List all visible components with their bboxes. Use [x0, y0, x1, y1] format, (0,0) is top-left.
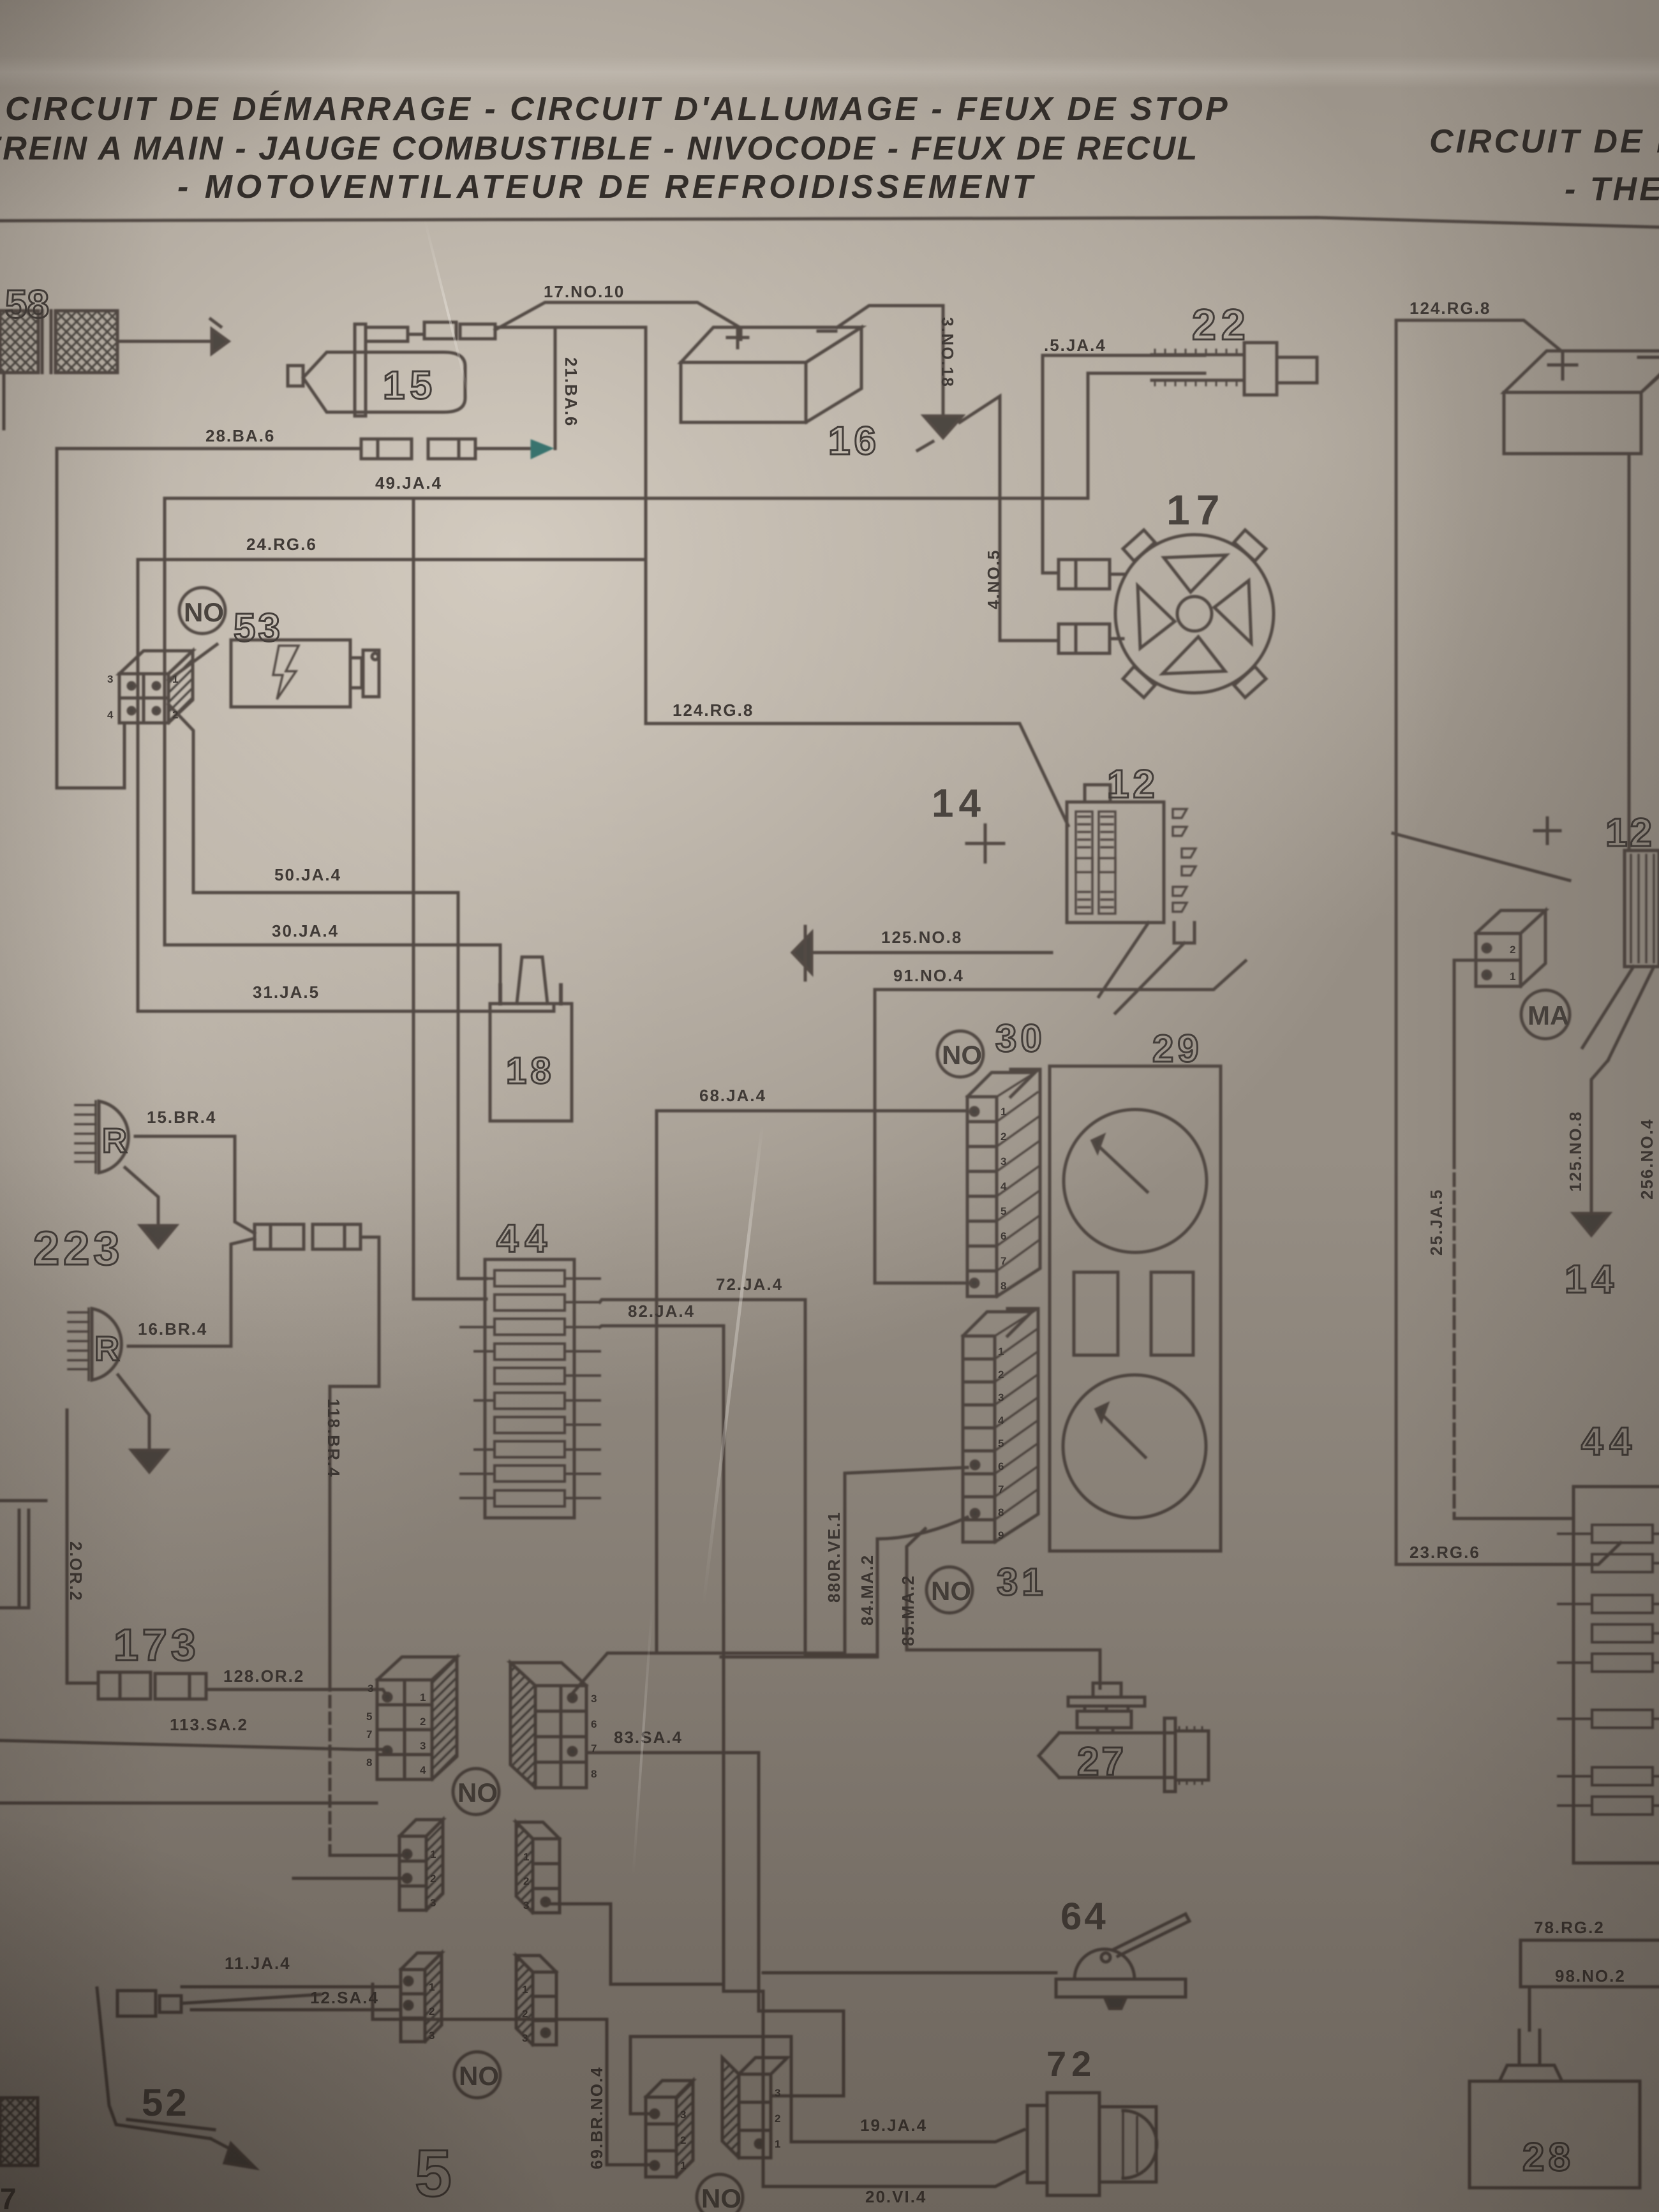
svg-text:FREIN A MAIN - JAUGE COMBUSTIB: FREIN A MAIN - JAUGE COMBUSTIBLE - NIVOC…	[0, 130, 1199, 167]
svg-text:29: 29	[1152, 1027, 1203, 1070]
svg-text:72: 72	[1046, 2044, 1096, 2084]
svg-text:19.JA.4: 19.JA.4	[860, 2116, 927, 2135]
svg-text:880R.VE.1: 880R.VE.1	[824, 1511, 844, 1603]
svg-text:NO: NO	[458, 1778, 498, 1807]
svg-text:1: 1	[420, 1691, 426, 1704]
svg-text:53: 53	[234, 606, 283, 650]
svg-text:30: 30	[995, 1017, 1046, 1060]
svg-text:4: 4	[420, 1764, 426, 1776]
svg-text:28.BA.6: 28.BA.6	[205, 426, 275, 445]
svg-text:98.NO.2: 98.NO.2	[1555, 1966, 1626, 1986]
svg-text:3: 3	[1001, 1155, 1006, 1168]
svg-text:3: 3	[420, 1740, 426, 1752]
svg-text:68.JA.4: 68.JA.4	[699, 1086, 766, 1105]
svg-text:3: 3	[430, 1897, 436, 1909]
svg-text:124.RG.8: 124.RG.8	[673, 701, 754, 720]
svg-text:223: 223	[33, 1222, 123, 1275]
svg-text:2: 2	[420, 1716, 426, 1728]
svg-text:2: 2	[680, 2134, 686, 2146]
svg-text:58: 58	[5, 283, 49, 327]
svg-text:3: 3	[523, 1899, 529, 1911]
svg-text:83.SA.4: 83.SA.4	[614, 1728, 683, 1747]
svg-text:CIRCUIT DE D: CIRCUIT DE D	[1429, 123, 1659, 160]
svg-text:2: 2	[522, 2008, 528, 2020]
svg-text:18: 18	[506, 1050, 555, 1092]
svg-text:2: 2	[775, 2112, 780, 2125]
svg-text:31.JA.5: 31.JA.5	[253, 983, 320, 1002]
svg-text:91.NO.4: 91.NO.4	[893, 966, 964, 985]
svg-text:1: 1	[998, 1346, 1004, 1358]
svg-text:49.JA.4: 49.JA.4	[375, 473, 442, 493]
svg-text:6: 6	[998, 1460, 1004, 1473]
svg-text:31: 31	[997, 1561, 1047, 1603]
svg-text:44: 44	[496, 1217, 553, 1261]
svg-text:14: 14	[1565, 1258, 1619, 1302]
svg-text:11.JA.4: 11.JA.4	[225, 1954, 291, 1973]
svg-text:14: 14	[932, 782, 986, 826]
svg-text:2: 2	[429, 2005, 435, 2017]
svg-text:21.BA.6: 21.BA.6	[562, 357, 581, 427]
svg-text:6: 6	[591, 1718, 597, 1730]
svg-text:27: 27	[1077, 1740, 1126, 1784]
svg-text:3.NO.18: 3.NO.18	[938, 317, 957, 388]
svg-text:1: 1	[429, 1981, 435, 1993]
svg-text:8: 8	[366, 1756, 372, 1769]
svg-text:12.SA.4: 12.SA.4	[310, 1988, 379, 2007]
svg-text:12: 12	[1107, 762, 1159, 806]
svg-text:NO: NO	[459, 2061, 499, 2091]
svg-text:3: 3	[429, 2030, 435, 2042]
svg-text:2: 2	[523, 1875, 529, 1887]
svg-text:1: 1	[523, 1851, 529, 1863]
svg-text:7: 7	[366, 1728, 372, 1741]
svg-text:3: 3	[107, 673, 113, 685]
svg-text:118.BR.4: 118.BR.4	[324, 1399, 343, 1478]
svg-text:256.NO.4: 256.NO.4	[1637, 1118, 1656, 1199]
svg-text:- MOTOVENTILATEUR DE REFROIDIS: - MOTOVENTILATEUR DE REFROIDISSEMENT	[177, 168, 1036, 205]
svg-text:173: 173	[114, 1620, 200, 1670]
svg-text:16: 16	[828, 419, 880, 463]
svg-text:8: 8	[1001, 1280, 1006, 1292]
svg-text:8: 8	[591, 1768, 597, 1780]
svg-text:7: 7	[1001, 1255, 1006, 1267]
svg-text:6: 6	[1001, 1230, 1006, 1242]
svg-text:3: 3	[775, 2087, 780, 2099]
svg-text:50.JA.4: 50.JA.4	[274, 865, 341, 884]
svg-text:7: 7	[0, 2182, 17, 2212]
svg-text:20.VI.4: 20.VI.4	[865, 2187, 926, 2206]
svg-text:5: 5	[1001, 1205, 1006, 1217]
svg-text:3: 3	[998, 1392, 1004, 1404]
svg-text:84.MA.2: 84.MA.2	[858, 1554, 877, 1626]
svg-text:3: 3	[680, 2109, 686, 2121]
svg-text:69.BR.NO.4: 69.BR.NO.4	[587, 2066, 606, 2169]
svg-text:52: 52	[142, 2081, 190, 2124]
svg-text:1: 1	[172, 673, 178, 685]
svg-text:78.RG.2: 78.RG.2	[1534, 1918, 1605, 1937]
svg-text:.5.JA.4: .5.JA.4	[1044, 336, 1106, 355]
svg-text:125.NO.8: 125.NO.8	[881, 928, 962, 947]
svg-text:16.BR.4: 16.BR.4	[138, 1319, 207, 1339]
svg-text:125.NO.8: 125.NO.8	[1566, 1111, 1585, 1192]
svg-text:12: 12	[1605, 811, 1655, 855]
svg-text:3: 3	[522, 2032, 528, 2044]
svg-text:7: 7	[998, 1483, 1004, 1496]
svg-text:82.JA.4: 82.JA.4	[628, 1302, 695, 1321]
svg-text:4: 4	[1001, 1180, 1007, 1192]
svg-text:9: 9	[998, 1529, 1004, 1541]
svg-text:- THERM: - THERM	[1565, 171, 1659, 208]
svg-text:4: 4	[107, 709, 114, 721]
svg-text:NO: NO	[931, 1576, 971, 1606]
svg-text:17: 17	[1166, 486, 1226, 533]
svg-text:4.NO.5: 4.NO.5	[984, 549, 1003, 609]
svg-text:124.RG.8: 124.RG.8	[1410, 299, 1491, 318]
svg-text:113.SA.2: 113.SA.2	[170, 1715, 248, 1734]
svg-text:NO: NO	[701, 2183, 741, 2212]
svg-text:R: R	[94, 1330, 119, 1368]
svg-text:R: R	[102, 1122, 127, 1160]
svg-text:7: 7	[591, 1742, 597, 1755]
svg-text:NO: NO	[942, 1040, 982, 1070]
svg-text:2.OR.2: 2.OR.2	[66, 1541, 86, 1601]
svg-text:25.JA.5: 25.JA.5	[1427, 1189, 1446, 1256]
svg-text:17.NO.10: 17.NO.10	[544, 282, 625, 301]
svg-text:2: 2	[430, 1873, 436, 1885]
svg-text:72.JA.4: 72.JA.4	[716, 1275, 783, 1294]
svg-text:NO: NO	[184, 597, 224, 627]
svg-text:2: 2	[1510, 944, 1515, 956]
svg-text:2: 2	[998, 1369, 1004, 1381]
svg-text:1: 1	[522, 1984, 528, 1996]
svg-text:24.RG.6: 24.RG.6	[246, 535, 317, 554]
svg-text:128.OR.2: 128.OR.2	[223, 1666, 304, 1686]
svg-text:3: 3	[368, 1682, 373, 1695]
svg-text:4: 4	[998, 1414, 1004, 1427]
svg-text:5: 5	[366, 1711, 372, 1723]
svg-text:8: 8	[998, 1506, 1004, 1518]
svg-text:28: 28	[1522, 2135, 1574, 2179]
svg-text:30.JA.4: 30.JA.4	[272, 921, 339, 940]
svg-text:85.MA.2: 85.MA.2	[898, 1575, 918, 1646]
svg-text:1: 1	[775, 2138, 780, 2150]
svg-text:1: 1	[680, 2160, 686, 2172]
svg-text:44: 44	[1581, 1420, 1638, 1464]
svg-text:CIRCUIT DE DÉMARRAGE - CIRCUIT: CIRCUIT DE DÉMARRAGE - CIRCUIT D'ALLUMAG…	[5, 91, 1230, 128]
svg-text:1: 1	[1001, 1106, 1006, 1118]
svg-text:3: 3	[591, 1693, 597, 1705]
svg-text:2: 2	[172, 709, 178, 721]
svg-text:23.RG.6: 23.RG.6	[1410, 1543, 1480, 1562]
svg-text:15.BR.4: 15.BR.4	[147, 1108, 216, 1127]
svg-text:15: 15	[383, 364, 437, 408]
svg-text:5: 5	[998, 1437, 1004, 1450]
svg-text:MA: MA	[1528, 1000, 1569, 1030]
svg-text:5: 5	[415, 2137, 452, 2211]
svg-text:2: 2	[1001, 1131, 1006, 1143]
svg-text:1: 1	[1510, 970, 1515, 983]
svg-text:64: 64	[1060, 1895, 1108, 1938]
svg-text:22: 22	[1192, 301, 1251, 349]
svg-text:1: 1	[430, 1848, 436, 1860]
